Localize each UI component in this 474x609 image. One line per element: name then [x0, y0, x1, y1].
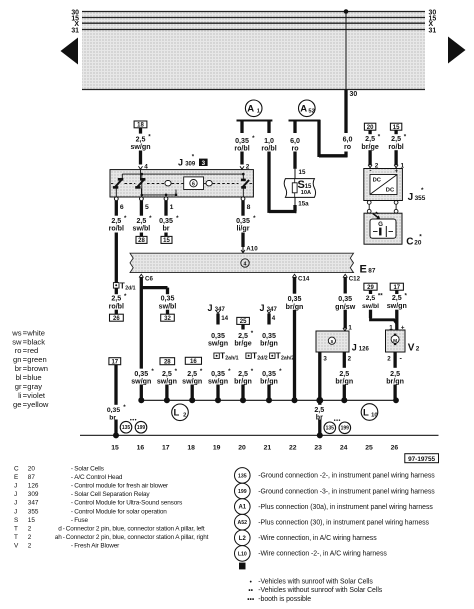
- svg-text:A: A: [300, 104, 307, 115]
- svg-text:violet: violet: [27, 391, 46, 400]
- svg-text:1: 1: [170, 204, 174, 211]
- svg-text:2: 2: [28, 526, 32, 533]
- svg-text:-booth is possible: -booth is possible: [258, 596, 311, 603]
- svg-text:-: -: [71, 483, 73, 490]
- svg-text:br/gn: br/gn: [286, 303, 304, 311]
- svg-text:gr: gr: [15, 382, 22, 391]
- svg-text:gn/sw: gn/sw: [335, 303, 356, 311]
- svg-text:6: 6: [120, 204, 124, 211]
- svg-text:C14: C14: [298, 275, 310, 282]
- svg-text:-Vehicles with sunroof with So: -Vehicles with sunroof with Solar Cells: [258, 579, 373, 586]
- svg-text:17: 17: [162, 444, 170, 451]
- svg-text:2ah/2: 2ah/2: [281, 356, 294, 362]
- svg-text:ro/bl: ro/bl: [261, 145, 276, 153]
- svg-text:sw: sw: [12, 337, 22, 346]
- svg-text:L: L: [174, 408, 180, 419]
- svg-text:L10: L10: [238, 551, 247, 557]
- svg-text:26: 26: [391, 444, 399, 451]
- svg-text:15: 15: [299, 169, 306, 176]
- svg-text:C: C: [14, 465, 19, 472]
- svg-text:15: 15: [393, 125, 400, 131]
- svg-text:ws: ws: [11, 328, 21, 337]
- svg-text:sw/bl: sw/bl: [133, 225, 151, 233]
- svg-text:ah: ah: [55, 534, 63, 541]
- svg-text:white: white: [26, 328, 45, 337]
- svg-text:309: 309: [185, 161, 196, 167]
- svg-text:A/C Control Head: A/C Control Head: [74, 474, 123, 481]
- svg-text:br/ge: br/ge: [234, 340, 251, 348]
- svg-text:52: 52: [308, 109, 314, 115]
- svg-text:Solar Cells: Solar Cells: [74, 465, 104, 472]
- svg-text:-Ground connection -3-, in ins: -Ground connection -3-, in instrument pa…: [258, 488, 435, 495]
- svg-text:0,35: 0,35: [107, 407, 120, 414]
- svg-text:-: -: [71, 474, 73, 481]
- svg-text:li/gr: li/gr: [236, 225, 249, 233]
- svg-text:20: 20: [28, 465, 36, 472]
- svg-text:Control Module for Ultra-Sound: Control Module for Ultra-Sound sensors: [74, 500, 182, 507]
- svg-text:yellow: yellow: [27, 400, 49, 409]
- svg-text:J: J: [14, 491, 17, 498]
- svg-text:-: -: [63, 534, 65, 541]
- svg-text:sw/gn: sw/gn: [387, 302, 407, 310]
- svg-text:355: 355: [28, 508, 39, 515]
- svg-text:20: 20: [367, 125, 374, 131]
- svg-text:20: 20: [238, 444, 246, 451]
- svg-text:18: 18: [187, 444, 195, 451]
- svg-text:M: M: [393, 338, 397, 344]
- svg-text:29: 29: [367, 285, 374, 291]
- svg-text:347: 347: [28, 500, 39, 507]
- svg-text:J: J: [352, 342, 357, 352]
- svg-text:-: -: [369, 168, 371, 175]
- svg-text:•: •: [250, 579, 252, 586]
- svg-text:30: 30: [350, 91, 358, 98]
- svg-text:DC: DC: [386, 188, 395, 194]
- svg-text:Connector 2 pin, blue, connect: Connector 2 pin, blue, connector station…: [66, 526, 205, 533]
- svg-text:2: 2: [183, 413, 186, 419]
- svg-text:26: 26: [113, 316, 120, 322]
- svg-text:ro: ro: [344, 143, 352, 151]
- svg-text:15a: 15a: [298, 200, 309, 207]
- svg-text:sw/bl: sw/bl: [362, 303, 379, 310]
- svg-text:135: 135: [326, 426, 335, 432]
- svg-text:28: 28: [138, 238, 145, 244]
- svg-text:J: J: [408, 192, 414, 203]
- svg-text:brown: brown: [27, 364, 48, 373]
- svg-text:5: 5: [145, 204, 149, 211]
- svg-text:sw/gn: sw/gn: [130, 143, 150, 151]
- svg-text:E: E: [360, 263, 367, 275]
- svg-text:347: 347: [215, 307, 226, 313]
- svg-text:G: G: [378, 221, 383, 228]
- svg-text:Connector 2 pin, blue, connect: Connector 2 pin, blue, connector station…: [66, 534, 209, 541]
- svg-text:97-19755: 97-19755: [408, 456, 435, 463]
- svg-text:-: -: [71, 500, 73, 507]
- svg-text:A: A: [247, 104, 254, 115]
- svg-text:L: L: [363, 407, 369, 418]
- svg-text:16: 16: [190, 359, 197, 365]
- svg-text:15: 15: [111, 444, 119, 451]
- svg-text:s: s: [330, 339, 333, 345]
- svg-text:23: 23: [314, 444, 322, 451]
- svg-text:19: 19: [213, 444, 221, 451]
- svg-text:bl: bl: [16, 373, 22, 382]
- svg-text:T: T: [120, 282, 125, 291]
- svg-text:br: br: [162, 225, 169, 233]
- svg-text:A1: A1: [238, 505, 246, 511]
- svg-text:31: 31: [429, 27, 437, 34]
- svg-text:S: S: [14, 517, 18, 524]
- svg-text:2: 2: [348, 356, 352, 363]
- svg-text:199: 199: [341, 426, 350, 432]
- svg-text:4: 4: [144, 163, 148, 170]
- svg-text:br/ge: br/ge: [361, 143, 378, 151]
- svg-text:3: 3: [202, 160, 206, 167]
- svg-text:ge: ge: [13, 400, 21, 409]
- svg-text:Fuse: Fuse: [74, 517, 88, 524]
- svg-text:**: **: [378, 292, 383, 299]
- svg-text:3: 3: [323, 356, 327, 363]
- svg-text:199: 199: [137, 425, 146, 431]
- svg-text:-Wire connection -2-, in A/C w: -Wire connection -2-, in A/C wiring harn…: [258, 551, 387, 558]
- svg-text:1: 1: [348, 324, 352, 331]
- svg-text:black: black: [27, 337, 45, 346]
- svg-text:gray: gray: [27, 382, 42, 391]
- svg-text:17: 17: [393, 285, 400, 291]
- svg-text:16: 16: [137, 444, 145, 451]
- svg-text:-: -: [63, 526, 65, 533]
- svg-text:Solar Cell Separation Relay: Solar Cell Separation Relay: [74, 491, 150, 498]
- svg-text:green: green: [27, 355, 46, 364]
- svg-text:•••: •••: [334, 418, 341, 424]
- svg-text:Control Module for solar opera: Control Module for solar operation: [74, 508, 167, 515]
- svg-text:V: V: [408, 342, 415, 353]
- svg-text:sw/gn: sw/gn: [208, 340, 228, 348]
- svg-text:J: J: [14, 508, 17, 515]
- svg-text:135: 135: [238, 473, 247, 479]
- svg-text:blue: blue: [27, 373, 41, 382]
- svg-text:2d/2: 2d/2: [257, 356, 267, 362]
- svg-text:J: J: [14, 483, 17, 490]
- svg-text:2: 2: [416, 345, 420, 352]
- svg-text:Fresh Air Blower: Fresh Air Blower: [74, 543, 120, 550]
- svg-text:15: 15: [28, 517, 36, 524]
- svg-text:sw/bl: sw/bl: [159, 302, 177, 310]
- svg-text:2,5: 2,5: [366, 295, 376, 302]
- svg-text:A10: A10: [246, 246, 258, 253]
- svg-text:T: T: [14, 526, 18, 533]
- svg-text:red: red: [27, 346, 38, 355]
- svg-text:DC: DC: [373, 178, 382, 184]
- svg-text:2ah/1: 2ah/1: [225, 356, 238, 362]
- svg-text:15: 15: [163, 238, 170, 244]
- svg-text:32: 32: [164, 316, 171, 322]
- svg-text:87: 87: [368, 267, 376, 274]
- svg-text:J: J: [178, 157, 183, 167]
- svg-text:2: 2: [28, 543, 32, 550]
- svg-text:-Plus connection (30), in inst: -Plus connection (30), in instrument pan…: [258, 520, 429, 527]
- svg-text:-Wire connection, in A/C wirin: -Wire connection, in A/C wiring harness: [258, 535, 377, 542]
- svg-text:199: 199: [238, 489, 247, 495]
- svg-text:C: C: [406, 236, 413, 247]
- svg-text:355: 355: [415, 195, 426, 202]
- svg-text:J: J: [14, 500, 17, 507]
- svg-text:li: li: [18, 391, 22, 400]
- svg-text:•••: •••: [247, 596, 254, 603]
- svg-text:-Vehicles without sunroof with: -Vehicles without sunroof with Solar Cel…: [258, 587, 383, 594]
- svg-text:6: 6: [192, 182, 195, 188]
- svg-text:C6: C6: [145, 275, 153, 282]
- svg-text:25: 25: [240, 319, 247, 325]
- svg-text:2: 2: [387, 356, 391, 363]
- svg-text:ro/bl: ro/bl: [388, 143, 403, 151]
- svg-text:T: T: [14, 534, 18, 541]
- svg-text:-: -: [71, 543, 73, 550]
- svg-text:24: 24: [340, 444, 348, 451]
- svg-text:87: 87: [28, 474, 36, 481]
- svg-text:21: 21: [264, 444, 272, 451]
- svg-text:-: -: [71, 517, 73, 524]
- svg-text:+: +: [394, 168, 398, 175]
- svg-text:-: -: [71, 508, 73, 515]
- svg-text:15: 15: [305, 184, 312, 190]
- svg-text:309: 309: [28, 491, 39, 498]
- svg-text:E: E: [14, 474, 18, 481]
- svg-text:C12: C12: [349, 275, 361, 282]
- svg-text:-Plus connection (30a), in ins: -Plus connection (30a), in instrument pa…: [258, 504, 433, 511]
- svg-text:ro: ro: [291, 145, 299, 153]
- svg-text:V: V: [14, 543, 19, 550]
- svg-text:d: d: [58, 526, 62, 533]
- svg-text:126: 126: [28, 483, 39, 490]
- svg-text:gn: gn: [13, 355, 21, 364]
- svg-text:••: ••: [248, 587, 253, 594]
- svg-text:ro/bl: ro/bl: [109, 225, 124, 233]
- svg-text:J: J: [260, 303, 265, 313]
- svg-text:L2: L2: [239, 536, 247, 542]
- svg-text:ro: ro: [15, 346, 22, 355]
- svg-text:10: 10: [371, 412, 377, 418]
- svg-text:31: 31: [71, 27, 79, 34]
- svg-text:2: 2: [28, 534, 32, 541]
- svg-text:4: 4: [244, 261, 247, 267]
- svg-text:-: -: [71, 491, 73, 498]
- svg-text:14: 14: [221, 315, 228, 322]
- svg-text:28: 28: [164, 359, 171, 365]
- svg-text:J: J: [208, 303, 213, 313]
- svg-text:Control module for fresh air b: Control module for fresh air blower: [74, 483, 169, 490]
- svg-text:-Ground connection -2-, in ins: -Ground connection -2-, in instrument pa…: [258, 473, 435, 480]
- svg-text:•••: •••: [130, 417, 137, 423]
- svg-text:2d/1: 2d/1: [125, 286, 135, 292]
- svg-text:ro/bl: ro/bl: [109, 302, 124, 310]
- svg-text:br: br: [15, 364, 22, 373]
- svg-text:25: 25: [365, 444, 373, 451]
- svg-text:A52: A52: [238, 520, 248, 526]
- svg-text:18: 18: [137, 123, 144, 129]
- svg-text:ro/bl: ro/bl: [234, 145, 249, 153]
- svg-text:4: 4: [272, 315, 276, 322]
- svg-text:126: 126: [359, 346, 370, 352]
- svg-text:10A: 10A: [301, 190, 311, 196]
- svg-text:22: 22: [289, 444, 297, 451]
- svg-text:br/gn: br/gn: [260, 340, 278, 348]
- svg-text:8: 8: [247, 204, 251, 211]
- svg-text:-: -: [71, 465, 73, 472]
- svg-text:17: 17: [111, 359, 118, 365]
- svg-text:135: 135: [122, 425, 131, 431]
